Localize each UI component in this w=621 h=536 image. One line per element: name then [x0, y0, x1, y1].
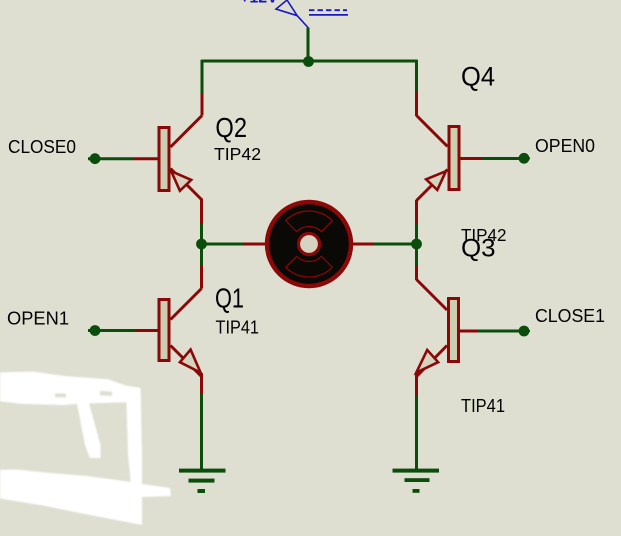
ground left	[179, 469, 226, 493]
wire node A to Q1 collector	[200, 248, 203, 266]
svg-text:Q2: Q2	[215, 112, 247, 143]
junction node B	[411, 239, 422, 250]
svg-text:+12V: +12V	[240, 0, 278, 7]
motor pin left	[243, 243, 266, 246]
junction top rail	[303, 56, 314, 67]
terminal CLOSE0	[88, 153, 134, 164]
transistor Q3	[416, 266, 478, 397]
wire power to rail	[307, 28, 310, 62]
transistor Q1	[135, 266, 202, 394]
svg-text:Q4: Q4	[461, 61, 495, 91]
wire Q3 emitter to ground	[415, 396, 418, 470]
ground right	[393, 469, 440, 493]
svg-text:Q3: Q3	[461, 235, 496, 263]
wire rail left vertical	[201, 60, 204, 93]
svg-text:TIP41: TIP41	[216, 318, 260, 338]
terminal CLOSE1	[519, 326, 530, 337]
power +12V label	[240, 0, 278, 7]
wire top rail	[202, 60, 417, 63]
terminal OPEN0	[519, 153, 530, 164]
wire motor to node B	[374, 243, 417, 246]
power arrow symbol	[276, 0, 348, 28]
svg-text:CLOSE0: CLOSE0	[8, 137, 76, 157]
wire rail right vertical	[415, 60, 418, 92]
svg-text:TIP41: TIP41	[461, 396, 505, 416]
wire node A to motor	[202, 243, 244, 246]
wire Q1 emitter to ground	[200, 394, 203, 471]
wire node B to Q3 collector	[415, 248, 418, 266]
junction node A	[196, 239, 207, 250]
wire Q2 emitter to node A	[200, 224, 203, 240]
eraser white marks	[0, 372, 171, 525]
motor M1	[267, 202, 351, 286]
svg-text:CLOSE1: CLOSE1	[535, 306, 605, 326]
svg-text:OPEN1: OPEN1	[7, 309, 69, 329]
svg-text:OPEN0: OPEN0	[535, 136, 595, 156]
svg-text:TIP42: TIP42	[214, 144, 261, 164]
wire Q4 base to terminal	[481, 157, 524, 160]
transistor Q4	[417, 92, 482, 223]
svg-text:Q1: Q1	[215, 283, 244, 314]
wire Q4 emitter to node B	[415, 223, 418, 240]
wire Q3 base to terminal	[478, 330, 524, 333]
motor pin right	[352, 243, 374, 246]
terminal OPEN1	[88, 325, 135, 336]
transistor Q2	[134, 93, 202, 224]
